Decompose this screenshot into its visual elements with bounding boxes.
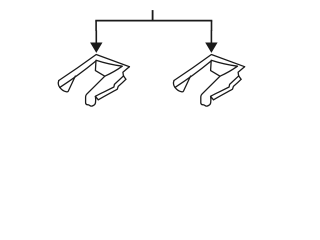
left arrow xyxy=(90,30,102,53)
left clip xyxy=(58,55,129,107)
bracket horizontal line xyxy=(95,20,212,22)
bracket right drop xyxy=(211,21,213,31)
right arrow xyxy=(205,30,217,53)
right clip xyxy=(174,55,245,107)
label 1 tick xyxy=(152,10,154,21)
bracket left drop xyxy=(95,21,97,31)
